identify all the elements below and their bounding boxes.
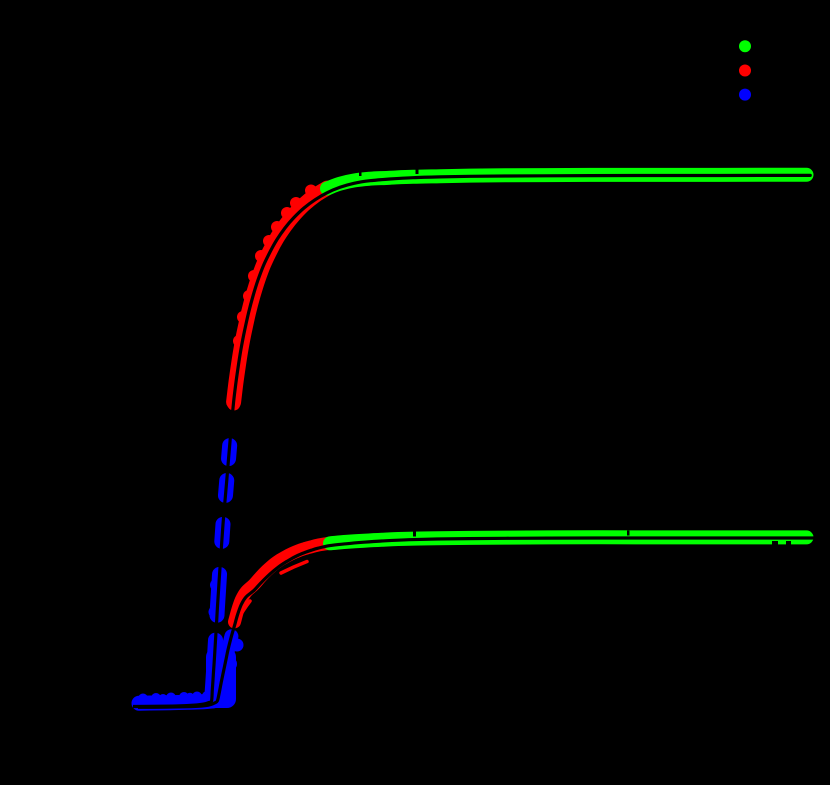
bottom red band wobble (248, 556, 288, 589)
bottom curve black fit line (138, 538, 813, 707)
top red leading dots (227, 387, 242, 411)
top curve: blue marker column (steep, dashed look) (212, 438, 231, 701)
legend marker red (739, 65, 751, 77)
bottom red outlier arc below the band (281, 562, 307, 574)
legend marker green (739, 40, 751, 52)
bottom red under-strip near rise (237, 601, 250, 621)
bottom curve: blue marker column (steep section) (217, 636, 231, 701)
baseline marker jitter bumps (138, 691, 212, 704)
marker gap notches in green bands (359, 167, 791, 545)
bottom curve: red marker band (235, 543, 331, 622)
baseline data band (blue markers, flat run bottom-left) (139, 701, 214, 703)
top curve blue jitter (209, 440, 237, 619)
top curve black fit line (133, 175, 810, 706)
legend marker blue (739, 89, 751, 101)
top red band wobble (233, 185, 317, 348)
bottom-left dense blue blob where both rises merge (206, 648, 236, 708)
top curve: red marker band (rise and bend) (234, 188, 327, 402)
top curve: green marker band (plateau) (327, 175, 807, 189)
bottom curve blue jitter (218, 639, 244, 692)
bottom curve: green marker band (plateau) (330, 537, 807, 543)
